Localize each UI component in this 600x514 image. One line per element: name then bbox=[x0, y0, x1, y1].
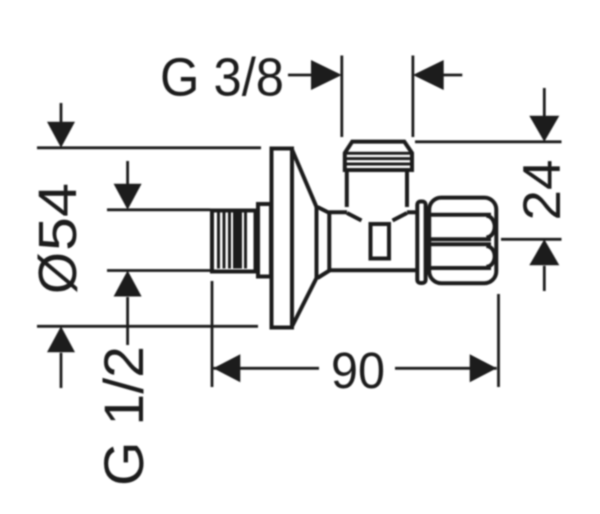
neck chamfers to body bbox=[318, 207, 330, 278]
valve body bbox=[329, 212, 417, 270]
wall rosette (escutcheon) bbox=[272, 149, 293, 328]
G3/8 pipe walls bbox=[347, 171, 407, 207]
dimension label 90 bbox=[331, 342, 385, 399]
svg-text:G 1/2: G 1/2 bbox=[92, 346, 155, 486]
G3/8 thread cap bbox=[345, 142, 412, 170]
valve seat window bbox=[371, 224, 390, 259]
handle flute arc upper band bbox=[486, 216, 494, 238]
G1/2 threaded nipple bbox=[212, 211, 256, 272]
dimension G3/8 leader and arrows bbox=[288, 56, 462, 138]
cylinder collar between thread and rosette bbox=[258, 204, 271, 277]
dimension 90 line, arrows, extension lines bbox=[212, 281, 499, 387]
knurled handle outline bbox=[429, 198, 496, 284]
dimension label G 3/8 bbox=[160, 48, 284, 108]
dimension G1/2 extension lines and arrows bbox=[107, 161, 210, 345]
handle flute arc lower band bbox=[486, 246, 494, 267]
funnel chamfer lines under inlet pipe bbox=[347, 213, 407, 221]
svg-text:24: 24 bbox=[513, 160, 572, 221]
dimension label 24 (rotated) bbox=[513, 160, 572, 221]
cone from rosette to valve body with neck bbox=[292, 150, 317, 327]
dimension label Ø 54 (rotated) bbox=[28, 183, 88, 294]
svg-text:G 3/8: G 3/8 bbox=[160, 48, 284, 108]
handle collar ring bbox=[417, 202, 425, 284]
svg-text:Ø: Ø bbox=[28, 252, 88, 294]
dimension 24 reference lines and arrows bbox=[415, 88, 562, 291]
handle divider lines bbox=[429, 215, 491, 268]
svg-text:54: 54 bbox=[28, 183, 88, 251]
svg-text:90: 90 bbox=[331, 342, 385, 399]
dimension label G 1/2 (rotated) bbox=[92, 346, 155, 486]
dimension Ø54 extension lines and arrows bbox=[37, 103, 261, 388]
